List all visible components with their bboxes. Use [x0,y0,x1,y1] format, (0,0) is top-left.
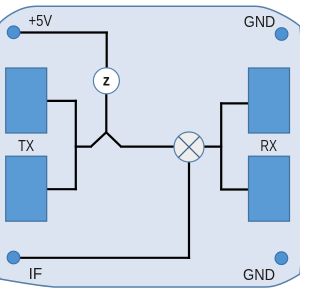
wire TX bus vertical [75,100,77,191]
svg-text:TX: TX [18,138,34,155]
svg-text:GND: GND [244,14,275,31]
pin IF bottom-left [7,251,20,264]
wire TX lower stub [46,188,77,190]
svg-text:z: z [103,73,110,90]
wire RX lower stub [220,188,250,190]
wire RX bus vertical [220,102,222,190]
patch RX upper [249,68,290,133]
svg-text:RX: RX [260,138,277,155]
oscillator Z [93,68,119,94]
wire mixer to IF vertical [188,161,190,259]
wire branch right diagonal [106,132,121,146]
patch RX lower [249,156,290,221]
wire +5V horizontal [14,31,108,33]
pin +5V top-left [7,26,20,39]
svg-text:IF: IF [29,266,43,283]
wire TX upper stub [46,100,77,102]
patch TX upper [6,68,47,133]
pin GND top-right [275,28,288,41]
svg-text:+5V: +5V [29,13,53,30]
wire IF horizontal [14,257,191,259]
wire branch left diagonal [91,132,106,146]
svg-text:GND: GND [243,267,275,284]
wire branch to mixer [120,146,175,148]
patch TX lower [6,156,47,221]
wire RX upper stub [220,102,249,104]
wire branch to TX bus [75,146,92,148]
wire oscillator to junction [105,93,107,133]
pin GND bottom-right [275,252,288,265]
wire mixer to RX bus [203,146,222,148]
mixer [174,132,204,162]
wire +5V vertical to oscillator [106,31,108,68]
